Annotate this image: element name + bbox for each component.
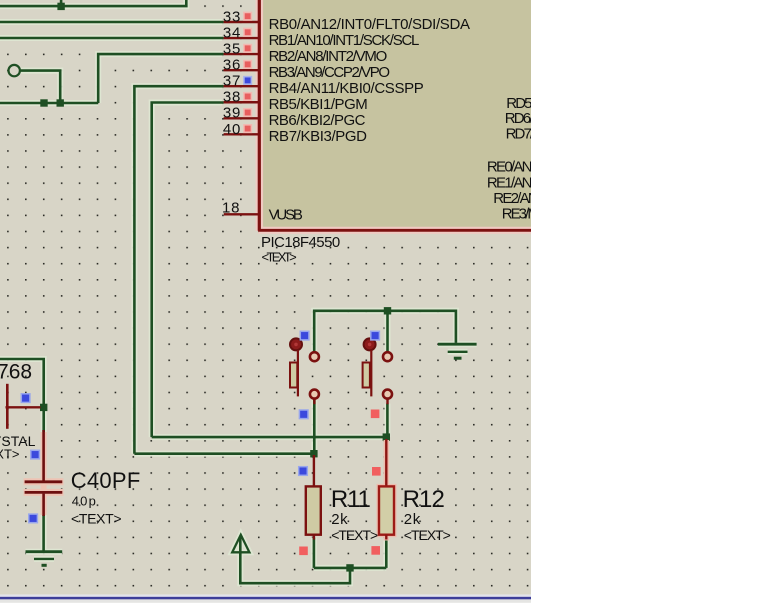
wire crystal net	[0, 359, 44, 404]
pin stub 36	[224, 69, 260, 71]
svg-text:RB2/AN8/INT2/VMO: RB2/AN8/INT2/VMO	[269, 48, 388, 65]
red state square R12 top	[372, 467, 381, 476]
svg-text:<TEXT>: <TEXT>	[0, 446, 20, 461]
blue state square button2 top	[371, 331, 380, 340]
junction crystal	[40, 404, 47, 411]
svg-text:<TEXT>: <TEXT>	[71, 510, 122, 526]
svg-text:32768: 32768	[0, 360, 32, 383]
svg-text:RB1/AN10/INT1/SCK/SCL: RB1/AN10/INT1/SCK/SCL	[269, 32, 420, 49]
wire button2 top	[386, 311, 389, 352]
svg-text:RE3/MCLR/VPP: RE3/MCLR/VPP	[502, 206, 591, 223]
capacitor C4 pink halo	[24, 432, 64, 515]
button 1 cap	[290, 338, 302, 350]
resistor R12 top lead	[385, 439, 387, 486]
capacitor C4	[25, 430, 63, 516]
junction bus B	[57, 99, 64, 106]
svg-text:<TEXT>: <TEXT>	[262, 250, 297, 265]
svg-text:2k: 2k	[404, 511, 421, 528]
wire button2 bottom	[386, 404, 389, 438]
resistor R12 bottom lead	[385, 535, 387, 540]
pin stub 37	[224, 85, 260, 87]
ground left	[26, 552, 63, 566]
blue state square cap bottom	[29, 514, 38, 523]
wire R12 bottom	[385, 538, 388, 568]
pin 36 state box red	[244, 61, 252, 69]
wire button top rail	[314, 311, 456, 352]
wire pin33	[0, 21, 224, 24]
pin stub 34	[224, 37, 260, 39]
button 1 top terminal	[310, 352, 319, 361]
svg-text:RB5/KBI1/PGM: RB5/KBI1/PGM	[269, 96, 368, 113]
junction top	[57, 3, 64, 10]
button 2 body	[363, 363, 370, 388]
button 1 body	[290, 363, 297, 388]
wire terminal	[21, 71, 61, 103]
svg-text:40: 40	[223, 121, 241, 138]
svg-text:36: 36	[223, 57, 241, 74]
button 2 top terminal	[383, 352, 392, 361]
svg-text:35: 35	[223, 41, 241, 58]
svg-text:RB6/KBI2/PGC: RB6/KBI2/PGC	[269, 112, 366, 129]
wire pin38	[152, 103, 224, 438]
svg-text:39: 39	[223, 105, 241, 122]
svg-text:PIC18F4550: PIC18F4550	[261, 234, 340, 251]
svg-text:RB7/KBI3/PGD: RB7/KBI3/PGD	[269, 128, 368, 145]
wire cap top green	[42, 407, 45, 432]
svg-text:<TEXT>: <TEXT>	[331, 527, 378, 543]
pin 33 state box red	[244, 12, 252, 20]
button 1 stem	[297, 350, 299, 396]
pin stub 33	[224, 21, 260, 23]
wire bottom rail	[314, 567, 386, 570]
resistor R12 body	[379, 486, 394, 534]
svg-text:34: 34	[223, 24, 241, 41]
wire pin37	[134, 86, 223, 454]
blue state square crystal body	[31, 450, 40, 459]
blue state square crystal pin	[21, 394, 30, 403]
svg-text:2k: 2k	[331, 511, 348, 528]
button 2 cap	[364, 338, 376, 350]
pin stub 35	[224, 53, 260, 55]
svg-text:RE1/AN6/CK2SPP: RE1/AN6/CK2SPP	[487, 174, 591, 191]
blue state square R11 top	[299, 467, 308, 476]
svg-text:RE0/AN5/CK1SPP: RE0/AN5/CK1SPP	[487, 159, 591, 176]
U1 PIC18F4550 chip body	[258, 0, 531, 231]
svg-text:18: 18	[222, 200, 240, 217]
button 2 bottom terminal	[383, 390, 392, 399]
wire pin35	[98, 54, 223, 103]
svg-text:38: 38	[223, 89, 241, 106]
pin 37 state box blue	[244, 77, 252, 85]
svg-text:RD6/SPP6/P1C: RD6/SPP6/P1C	[505, 110, 591, 127]
ground right	[438, 344, 477, 358]
junction bus A	[40, 99, 47, 106]
resistor R11 top lead	[313, 455, 315, 486]
schematic canvas background	[0, 0, 531, 595]
resistor R11 body	[306, 486, 321, 534]
wire R11 bottom	[313, 538, 316, 568]
pin stub 39	[224, 117, 260, 119]
svg-text:RB0/AN12/INT0/FLT0/SDI/SDA: RB0/AN12/INT0/FLT0/SDI/SDA	[269, 16, 470, 33]
svg-text:R12: R12	[403, 486, 445, 513]
blue state square button1 bottom	[299, 410, 308, 419]
resistor R11 bottom lead	[313, 535, 315, 540]
red state square R11 bottom	[299, 547, 308, 556]
wire button1 bottom	[313, 399, 316, 454]
pin 18 stub	[224, 213, 260, 215]
wire glow underlay	[0, 0, 477, 583]
pin stub 40	[224, 133, 260, 135]
pin 35 state box red	[244, 45, 252, 53]
wire pin34	[0, 37, 224, 40]
crystal X1 right plate	[6, 384, 9, 429]
svg-text:VUSB: VUSB	[269, 207, 303, 224]
svg-text:RB4/AN11/KBI0/CSSPP: RB4/AN11/KBI0/CSSPP	[269, 80, 424, 97]
wire node A horizontal	[152, 436, 387, 439]
button 2 bottom stub	[386, 399, 388, 405]
svg-text:<TEXT>: <TEXT>	[404, 527, 451, 543]
terminal circle	[9, 65, 20, 76]
svg-text:RD7/SPP7/P1D: RD7/SPP7/P1D	[506, 126, 591, 143]
pin stub 38	[224, 101, 260, 103]
wire bus left	[0, 102, 98, 105]
svg-text:40p: 40p	[72, 494, 96, 509]
svg-text:RB3/AN9/CCP2/VPO: RB3/AN9/CCP2/VPO	[269, 64, 390, 81]
junction node B	[310, 450, 317, 457]
power arrow terminal	[232, 535, 249, 553]
svg-text:37: 37	[223, 73, 241, 90]
junction bottom rail	[346, 564, 353, 571]
junction button rail	[384, 307, 391, 314]
svg-text:RE2/AN7/OESPP: RE2/AN7/OESPP	[493, 190, 590, 207]
wire node B horizontal	[134, 452, 314, 455]
bottom window edge strips	[0, 595, 532, 603]
svg-text:33: 33	[223, 8, 241, 25]
wire top net	[0, 0, 186, 6]
pin 39 state box red	[244, 109, 252, 117]
crystal pin	[6, 406, 41, 408]
pin 40 state box red	[244, 125, 252, 133]
button 1 bottom stub	[313, 399, 315, 405]
svg-text:R11: R11	[331, 486, 371, 513]
svg-text:C40PF: C40PF	[71, 468, 141, 493]
red state square R12 bottom	[371, 546, 380, 555]
pin 34 state box red	[244, 29, 252, 37]
blue state square button1 top	[300, 331, 309, 340]
junction node A	[383, 433, 390, 440]
button 2 stem	[370, 350, 372, 396]
resistor R12 halo	[379, 440, 394, 541]
red state square button2 bottom	[371, 410, 380, 419]
wire to power arrow	[240, 537, 350, 583]
wire cap bottom green	[42, 514, 45, 551]
button 1 bottom terminal	[310, 390, 319, 399]
pin 38 state box red	[244, 93, 252, 101]
